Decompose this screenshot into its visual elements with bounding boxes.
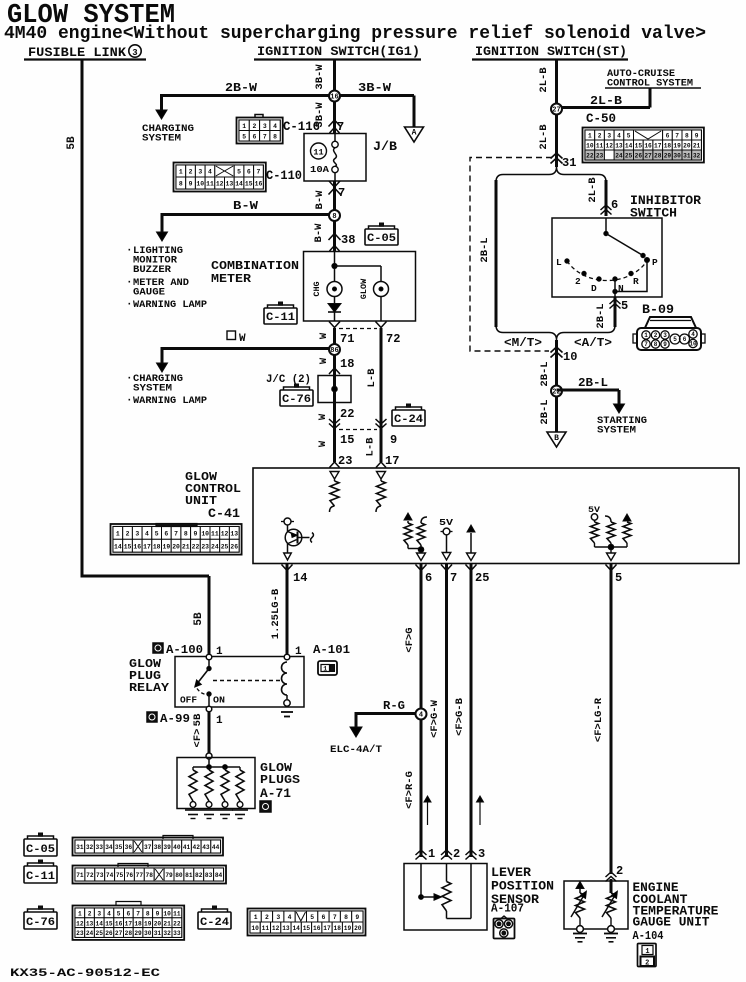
svg-text:SYSTEM: SYSTEM (142, 134, 181, 145)
svg-text:12: 12 (76, 920, 84, 927)
svg-text:6: 6 (253, 133, 257, 140)
svg-text:8: 8 (332, 213, 336, 221)
svg-text:2: 2 (575, 276, 581, 287)
svg-text:4: 4 (419, 711, 423, 719)
svg-text:·: · (126, 299, 133, 311)
svg-text:14: 14 (293, 571, 307, 585)
svg-text:5V: 5V (439, 518, 454, 528)
relay coil ground (281, 711, 293, 713)
relay switch (208, 660, 210, 668)
svg-text:25: 25 (475, 571, 489, 585)
svg-text:5: 5 (117, 911, 121, 918)
svg-text:2: 2 (88, 911, 92, 918)
svg-text:78: 78 (146, 872, 154, 879)
svg-text:18: 18 (334, 925, 342, 932)
svg-text:28: 28 (125, 930, 133, 937)
connector icon C-05 (24, 839, 57, 856)
svg-text:3: 3 (198, 169, 202, 176)
svg-text:19: 19 (163, 543, 171, 550)
svg-text:GAUGE UNIT: GAUGE UNIT (633, 916, 711, 930)
branch to starting system (557, 389, 620, 392)
svg-text:14: 14 (114, 543, 122, 550)
svg-text:2: 2 (654, 332, 658, 339)
svg-text:83: 83 (205, 872, 213, 879)
svg-text:8: 8 (273, 133, 277, 140)
svg-text:LEVER: LEVER (491, 866, 532, 880)
svg-text:ON: ON (213, 696, 225, 706)
svg-text:R: R (633, 276, 639, 287)
svg-text:9: 9 (390, 433, 397, 447)
svg-text:25: 25 (221, 543, 229, 550)
node 27 (551, 104, 562, 115)
svg-text:1: 1 (254, 914, 258, 921)
svg-text:17: 17 (654, 143, 662, 150)
svg-text:14: 14 (625, 143, 633, 150)
pins 71 72 (329, 322, 340, 328)
node 16 (329, 91, 340, 102)
svg-text:10: 10 (163, 911, 171, 918)
pin 17 entry (376, 462, 386, 468)
relay box (175, 657, 304, 708)
wire 3B-W branch to A (335, 94, 415, 97)
wire 1.25LG-B (286, 564, 289, 654)
svg-text:1.25LG-B: 1.25LG-B (270, 588, 282, 639)
connector C-41 (111, 524, 242, 555)
svg-text:16: 16 (115, 920, 123, 927)
svg-text:2L-B: 2L-B (538, 67, 550, 93)
svg-text:11: 11 (211, 531, 219, 538)
svg-text:W: W (317, 440, 329, 447)
svg-text:19: 19 (144, 920, 152, 927)
connector C-110 (174, 163, 266, 192)
svg-text:22: 22 (586, 153, 594, 160)
ECT box (564, 881, 628, 929)
svg-text:21: 21 (693, 143, 701, 150)
svg-text:P: P (652, 257, 658, 268)
svg-text:7: 7 (136, 911, 140, 918)
svg-text:1: 1 (588, 133, 592, 140)
svg-text:C-110: C-110 (266, 169, 302, 183)
pin 6 out (416, 565, 427, 571)
svg-text:B-09: B-09 (642, 302, 674, 317)
svg-text:C-50: C-50 (586, 112, 616, 126)
svg-text:31: 31 (683, 153, 691, 160)
svg-text:20: 20 (154, 920, 162, 927)
svg-text:4: 4 (107, 911, 111, 918)
connector icon C-24 (198, 912, 231, 929)
svg-text:6: 6 (247, 169, 251, 176)
svg-text:12: 12 (216, 181, 224, 188)
svg-text:A-71: A-71 (260, 787, 291, 801)
resistor at pin 17 (377, 472, 386, 480)
svg-text:2L-B: 2L-B (590, 95, 622, 108)
svg-text:CHG: CHG (312, 281, 322, 296)
input arrow pin 25 (467, 525, 475, 532)
svg-text:4: 4 (288, 914, 292, 921)
svg-text:1: 1 (156, 645, 160, 652)
node 86 (329, 344, 340, 355)
svg-text:75: 75 (116, 872, 124, 879)
svg-text:1: 1 (497, 921, 501, 928)
svg-text:<A/T>: <A/T> (574, 336, 612, 350)
svg-text:81: 81 (185, 872, 193, 879)
svg-text:5: 5 (621, 299, 628, 313)
chevron into J/B (329, 120, 341, 127)
pin 5 out (606, 565, 617, 571)
svg-text:15: 15 (245, 181, 253, 188)
svg-text:22: 22 (173, 920, 181, 927)
svg-text:15: 15 (105, 920, 113, 927)
wire to node 8 (333, 181, 336, 252)
svg-text:74: 74 (106, 872, 114, 879)
svg-text:10: 10 (586, 143, 594, 150)
svg-text:25: 25 (625, 153, 633, 160)
connector C-76 strip (73, 906, 185, 940)
bracket top (496, 167, 606, 182)
connector C-50 (583, 128, 704, 163)
svg-text:A-101: A-101 (313, 643, 350, 657)
svg-text:20: 20 (683, 143, 691, 150)
svg-text:2: 2 (645, 959, 649, 967)
svg-text:J/B: J/B (373, 139, 397, 154)
svg-text:4: 4 (273, 123, 277, 130)
glow plug resistor x=209 (208, 767, 210, 770)
svg-text:1: 1 (216, 715, 223, 727)
wire W column (333, 328, 336, 462)
svg-text:13: 13 (230, 531, 238, 538)
thermistor left (579, 885, 581, 894)
svg-text:27: 27 (115, 930, 123, 937)
svg-text:22: 22 (340, 407, 354, 421)
svg-text:35: 35 (115, 844, 123, 851)
svg-text:8: 8 (344, 914, 348, 921)
svg-text:17: 17 (125, 920, 133, 927)
svg-text:23: 23 (596, 153, 604, 160)
svg-text:SYSTEM: SYSTEM (133, 384, 172, 395)
svg-text:80: 80 (175, 872, 183, 879)
svg-text:A-107: A-107 (491, 902, 524, 916)
svg-text:12: 12 (606, 143, 614, 150)
svg-text:1: 1 (295, 646, 302, 658)
connector C-116 (237, 118, 283, 144)
resistor at pin 23 (330, 472, 339, 480)
svg-text:6: 6 (126, 911, 130, 918)
lamp GLOW (374, 282, 389, 297)
svg-text:·: · (126, 373, 133, 385)
svg-text:10: 10 (563, 350, 577, 364)
svg-text:2B-W: 2B-W (225, 82, 257, 95)
svg-text:38: 38 (154, 844, 162, 851)
svg-text:32: 32 (163, 930, 171, 937)
svg-text:26: 26 (105, 930, 113, 937)
svg-text:24: 24 (211, 543, 219, 550)
svg-text:86: 86 (330, 347, 338, 355)
svg-text:C-05: C-05 (367, 233, 396, 245)
svg-text:23: 23 (76, 930, 84, 937)
A-104 icon (638, 944, 657, 967)
svg-text:71: 71 (76, 872, 84, 879)
glow plugs box (206, 753, 212, 759)
chevron out of J/B (329, 181, 340, 187)
svg-text:C-116: C-116 (283, 120, 320, 134)
position arc dashed (567, 261, 647, 281)
svg-text:3: 3 (97, 911, 101, 918)
svg-text:19: 19 (673, 143, 681, 150)
resistor pair mid (404, 513, 412, 520)
svg-text:16: 16 (255, 181, 263, 188)
svg-text:16: 16 (330, 93, 338, 101)
switch arm (605, 218, 607, 233)
svg-text:10: 10 (201, 531, 209, 538)
svg-text:KX35-AC-90512-EC: KX35-AC-90512-EC (10, 968, 161, 980)
svg-text:9: 9 (189, 181, 193, 188)
P to N link (615, 262, 647, 292)
svg-text:21: 21 (163, 920, 171, 927)
svg-text:3: 3 (132, 48, 137, 58)
svg-text:C-11: C-11 (26, 871, 55, 883)
svg-text:11: 11 (173, 911, 181, 918)
svg-text:5: 5 (155, 531, 159, 538)
svg-text:L-B: L-B (365, 437, 377, 457)
svg-text:4: 4 (617, 133, 621, 140)
svg-text:1: 1 (78, 911, 82, 918)
triangle A (405, 127, 424, 142)
svg-text:39: 39 (163, 844, 171, 851)
svg-text:BUZZER: BUZZER (133, 265, 171, 276)
svg-text:WARNING LAMP: WARNING LAMP (133, 396, 207, 407)
svg-text:2B-L: 2B-L (578, 377, 608, 390)
svg-text:2: 2 (265, 914, 269, 921)
svg-text:3B-W: 3B-W (358, 82, 391, 95)
svg-text:6: 6 (683, 336, 687, 343)
svg-text:W: W (317, 413, 329, 420)
svg-text:2B-L: 2B-L (539, 361, 551, 386)
svg-text:5B: 5B (66, 136, 78, 150)
svg-text:31: 31 (76, 844, 84, 851)
triangle B (547, 432, 566, 447)
svg-text:9: 9 (663, 341, 667, 348)
svg-text:31: 31 (154, 930, 162, 937)
node 8 (329, 210, 340, 221)
svg-text:C-05: C-05 (26, 844, 55, 856)
svg-text:B: B (554, 434, 559, 443)
svg-text:<F>R-G: <F>R-G (404, 771, 416, 809)
svg-text:9: 9 (695, 133, 699, 140)
svg-text:31: 31 (562, 156, 576, 170)
svg-text:6: 6 (425, 571, 432, 585)
svg-text:GLOW: GLOW (359, 278, 369, 299)
svg-text:J/C (2): J/C (2) (266, 374, 311, 386)
svg-text:26: 26 (230, 543, 238, 550)
svg-text:3: 3 (502, 930, 506, 937)
svg-text:72: 72 (386, 332, 400, 346)
svg-text:15: 15 (124, 543, 132, 550)
svg-text:5: 5 (615, 571, 622, 585)
svg-text:17: 17 (385, 454, 399, 468)
A-107 icon (494, 919, 515, 939)
svg-text:1: 1 (150, 714, 154, 721)
combination meter box (304, 252, 416, 322)
svg-text:5B: 5B (193, 612, 205, 626)
svg-text:B-W: B-W (314, 190, 326, 210)
lever position sensor box (404, 864, 487, 931)
svg-text:23: 23 (201, 543, 209, 550)
svg-text:29: 29 (134, 930, 142, 937)
svg-text:<F>LG-R: <F>LG-R (593, 697, 605, 742)
svg-text:W: W (318, 332, 330, 339)
wire from N pin 5 (614, 297, 617, 327)
svg-text:2B-L: 2B-L (595, 303, 607, 328)
svg-text:15: 15 (635, 143, 643, 150)
svg-text:R-G: R-G (383, 700, 405, 713)
svg-text:33: 33 (96, 844, 104, 851)
svg-text:COMBINATION: COMBINATION (211, 259, 299, 273)
connector icon C-11 (24, 866, 57, 883)
svg-text:2: 2 (189, 169, 193, 176)
svg-text:2: 2 (616, 864, 623, 878)
svg-text:6: 6 (666, 133, 670, 140)
svg-text:30: 30 (144, 930, 152, 937)
svg-text:5B: 5B (192, 713, 204, 726)
svg-text:38: 38 (341, 233, 355, 247)
connector C-05 strip (73, 838, 224, 856)
svg-text:33: 33 (173, 930, 181, 937)
svg-text:B-W: B-W (313, 223, 325, 243)
transistor (281, 521, 294, 523)
svg-text:18: 18 (664, 143, 672, 150)
svg-text:B-W: B-W (233, 200, 258, 213)
svg-text:A-100: A-100 (166, 643, 203, 657)
svg-text:SYSTEM: SYSTEM (597, 426, 636, 437)
svg-text:7: 7 (644, 341, 648, 348)
bracket bottom (496, 325, 615, 340)
svg-text:40: 40 (173, 844, 181, 851)
svg-text:2B-L: 2B-L (539, 399, 551, 424)
svg-text:12: 12 (272, 925, 280, 932)
chevron 31 (551, 153, 563, 159)
svg-text:36: 36 (125, 844, 133, 851)
svg-text:11: 11 (596, 143, 604, 150)
svg-text:3: 3 (663, 332, 667, 339)
wire 10 (555, 340, 558, 432)
svg-text:43: 43 (202, 844, 210, 851)
J/B box (304, 134, 366, 182)
wire IG1 to J/B (333, 60, 336, 135)
glow plug resistor x=193 (192, 767, 194, 770)
svg-text:A-99: A-99 (160, 712, 190, 726)
svg-text:W: W (318, 357, 330, 364)
svg-text:2B-L: 2B-L (479, 237, 491, 262)
svg-text:6: 6 (611, 198, 618, 212)
svg-text:15: 15 (340, 433, 354, 447)
svg-text:8: 8 (179, 181, 183, 188)
white W square wire branch (162, 347, 335, 350)
svg-text:2L-B: 2L-B (587, 177, 599, 203)
svg-text:29: 29 (664, 153, 672, 160)
svg-text:GAUGE: GAUGE (133, 288, 165, 299)
svg-text:2: 2 (126, 531, 130, 538)
svg-text:77: 77 (136, 872, 144, 879)
svg-text:C-11: C-11 (266, 312, 295, 324)
svg-text:10: 10 (196, 181, 204, 188)
meter internal wiring (334, 252, 336, 282)
svg-text:L: L (556, 257, 562, 268)
svg-text:42: 42 (193, 844, 201, 851)
svg-text:W: W (239, 333, 246, 345)
svg-text:20: 20 (354, 925, 362, 932)
svg-text:13: 13 (86, 920, 94, 927)
svg-text:1: 1 (116, 531, 120, 538)
direction arrows (427, 800, 429, 825)
svg-text:27: 27 (644, 153, 652, 160)
svg-text:3: 3 (276, 914, 280, 921)
svg-text:A-104: A-104 (633, 929, 664, 943)
svg-text:<F>G: <F>G (404, 627, 416, 652)
svg-text:3: 3 (607, 133, 611, 140)
svg-text:7: 7 (257, 169, 261, 176)
svg-text:3: 3 (478, 847, 485, 861)
lamp CHG (327, 282, 342, 297)
svg-text:1: 1 (242, 123, 246, 130)
svg-text:2L-B: 2L-B (538, 124, 550, 150)
svg-text:16: 16 (133, 543, 141, 550)
svg-text:20: 20 (172, 543, 180, 550)
node 22 (551, 386, 562, 397)
pin 23 entry (330, 462, 340, 468)
connector icon C-76 top (280, 390, 313, 406)
connector icon C-11 top (264, 308, 297, 324)
svg-text:34: 34 (105, 844, 113, 851)
diode under CHG lamp (334, 297, 336, 304)
svg-text:25: 25 (96, 930, 104, 937)
svg-text:IGNITION SWITCH(IG1): IGNITION SWITCH(IG1) (257, 44, 420, 59)
svg-text:21: 21 (182, 543, 190, 550)
svg-text:8: 8 (184, 531, 188, 538)
svg-text:10: 10 (689, 341, 697, 348)
svg-text:10A: 10A (310, 165, 330, 175)
wire 5B from fusible link (81, 60, 84, 578)
svg-text:13: 13 (615, 143, 623, 150)
svg-text:3: 3 (263, 123, 267, 130)
svg-text:14: 14 (235, 181, 243, 188)
svg-text:C-76: C-76 (26, 917, 55, 929)
svg-text:WARNING LAMP: WARNING LAMP (133, 300, 207, 311)
svg-text:C-24: C-24 (394, 414, 423, 426)
svg-text:15: 15 (303, 925, 311, 932)
svg-text:9: 9 (355, 914, 359, 921)
wire pin5 LG-R (610, 564, 613, 874)
svg-text:9: 9 (194, 531, 198, 538)
svg-text:POSITION: POSITION (491, 880, 554, 894)
pins 15 / 9 dashed (329, 419, 340, 424)
svg-text:8: 8 (654, 341, 658, 348)
svg-text:·: · (126, 277, 133, 289)
svg-text:44: 44 (212, 844, 220, 851)
svg-text:79: 79 (165, 872, 173, 879)
svg-text:2: 2 (598, 133, 602, 140)
svg-text:16: 16 (313, 925, 321, 932)
svg-text:3: 3 (135, 531, 139, 538)
node 4 with R-G (356, 712, 416, 715)
svg-text:14: 14 (292, 925, 300, 932)
relay coil (282, 662, 288, 695)
wire pin6 G (420, 564, 423, 857)
svg-text:C-41: C-41 (208, 506, 240, 521)
svg-text:IGNITION SWITCH(ST): IGNITION SWITCH(ST) (475, 44, 627, 59)
svg-text:23: 23 (338, 454, 352, 468)
svg-text:<M/T>: <M/T> (504, 336, 542, 350)
svg-text:37: 37 (144, 844, 152, 851)
